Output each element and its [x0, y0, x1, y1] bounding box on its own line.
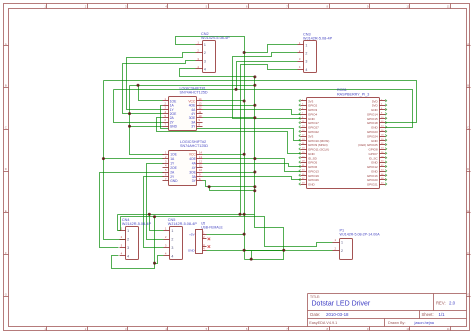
- svg-text:1: 1: [204, 43, 206, 47]
- title block: [308, 293, 467, 295]
- svg-text:10: 10: [406, 327, 410, 331]
- svg-text:3: 3: [305, 60, 307, 64]
- wire U1 4OE to GND trunk: [203, 105, 255, 107]
- wire U2 VCC to trunk: [203, 154, 245, 156]
- svg-text:Drawn By:: Drawn By:: [388, 321, 406, 325]
- svg-text:2: 2: [341, 249, 343, 253]
- svg-text:E: E: [5, 209, 7, 213]
- svg-text:2: 2: [127, 238, 129, 242]
- svg-text:11: 11: [447, 327, 450, 331]
- svg-text:D: D: [5, 167, 7, 171]
- svg-text:GND: GND: [308, 183, 316, 187]
- wire U2 4A to RPI GPIO6: [203, 164, 301, 167]
- svg-text:D: D: [467, 167, 469, 171]
- svg-text:Dotstar LED Driver: Dotstar LED Driver: [312, 301, 371, 308]
- wire U2 1Y to CN5.2: [147, 164, 164, 240]
- wire bus1 branch to U2 1A: [104, 158, 164, 160]
- svg-text:3OE: 3OE: [189, 170, 196, 174]
- wire CN5.4 branch: [155, 256, 164, 264]
- wire loop to CN4.4: [112, 217, 155, 269]
- connector RCB1 RASPBERRY_PI_3 header: [299, 88, 387, 188]
- wire CN3.1 to VCC trunk: [245, 45, 298, 53]
- wire jog link: [251, 251, 253, 260]
- wire VCC trunk to P1.2: [245, 250, 333, 252]
- wire U1 3OE to GND trunk: [203, 117, 255, 119]
- wire USB +5V to VCC trunk: [207, 234, 245, 236]
- svg-text:G: G: [467, 293, 469, 297]
- svg-text:WJ142R-5.08-4P: WJ142R-5.08-4P: [122, 222, 152, 226]
- wire to U1 GND: [130, 126, 163, 128]
- svg-text:WJ142R-5.08-4P: WJ142R-5.08-4P: [168, 222, 198, 226]
- svg-text:SN74AHCT125D: SN74AHCT125D: [180, 91, 208, 95]
- svg-text:A: A: [5, 42, 7, 46]
- svg-text:E: E: [467, 209, 469, 213]
- wire GND trunk bottom loop: [245, 77, 284, 260]
- wire U2 2Y to CN5.3: [144, 177, 164, 248]
- svg-text:1: 1: [341, 241, 343, 245]
- connector U5 USB-FEMALE: [188, 222, 224, 254]
- svg-text:EasyEDA V4.9.1: EasyEDA V4.9.1: [309, 321, 337, 325]
- svg-text:F: F: [5, 251, 7, 255]
- svg-text:C: C: [5, 125, 7, 129]
- connector CN5 WJ142R-5.08-4P: [164, 218, 198, 260]
- svg-text:3: 3: [204, 59, 206, 63]
- wire U2 3A to RPI GPIO26: [203, 177, 301, 180]
- wire U2 3Y to GND trunk: [203, 181, 255, 187]
- wire U2 2A to CN4.3: [100, 173, 164, 248]
- svg-text:SN74AHCT125D: SN74AHCT125D: [180, 144, 208, 148]
- wire bus2 to RPI GND: [114, 90, 413, 128]
- svg-text:TITLE:: TITLE:: [310, 295, 320, 299]
- svg-text:USB-FEMALE: USB-FEMALE: [201, 226, 223, 230]
- connector P1 WJ142R-5.08-2P-14.00A: [333, 228, 381, 259]
- wire CN2.2 to U1 1Y: [127, 53, 196, 110]
- wire to U1 1OE: [139, 86, 163, 101]
- op-amp buffer U1 SN74AHCT125D LOGICSHIFT#1: [163, 87, 208, 131]
- connector CN2 WJ142V-5.08-4P: [196, 32, 231, 72]
- wire bottom bus y217 to P1.1: [121, 217, 333, 247]
- op-amp buffer U2 SN74AHCT125D LOGICSHIFT#2: [163, 140, 209, 185]
- wire CN2.4 to GND trunk: [180, 69, 255, 77]
- wire bus1 to RPI GPIO18: [104, 81, 417, 123]
- svg-text:RASPBERRY_PI_3: RASPBERRY_PI_3: [337, 92, 369, 96]
- svg-text:GND: GND: [170, 179, 178, 183]
- svg-text:WJ142V-5.08-4P: WJ142V-5.08-4P: [201, 36, 230, 40]
- svg-text:Sheet:: Sheet:: [422, 312, 434, 317]
- svg-text:4: 4: [305, 68, 307, 72]
- wire bus1 left descent to CN4.2: [104, 81, 126, 240]
- svg-text:4: 4: [171, 254, 173, 258]
- wire U1 2A to RPI GND13: [157, 118, 301, 154]
- wire branch to GND trunk: [210, 187, 255, 191]
- svg-text:B: B: [5, 84, 7, 88]
- svg-text:2: 2: [171, 238, 173, 242]
- junction dots: [243, 51, 246, 54]
- connector CN3 WJ142R-5.08-4P: [298, 33, 333, 73]
- svg-text:2: 2: [305, 52, 307, 56]
- svg-text:WJ142R-5.08-4P: WJ142R-5.08-4P: [303, 37, 333, 41]
- svg-text:1: 1: [127, 229, 129, 233]
- svg-text:4: 4: [204, 68, 206, 72]
- wire CN3.2 to RPI GND: [233, 53, 301, 119]
- svg-text:10: 10: [406, 4, 410, 8]
- wire CN2.1 to VCC trunk: [176, 37, 245, 260]
- svg-text:1OE: 1OE: [170, 153, 177, 157]
- svg-text:jason.hejna: jason.hejna: [414, 321, 435, 325]
- svg-text:2: 2: [204, 51, 206, 55]
- svg-text:REV:: REV:: [436, 300, 446, 305]
- svg-text:1/1: 1/1: [439, 312, 446, 317]
- svg-text:2OE: 2OE: [170, 166, 177, 170]
- wire GND down to U2 1OE: [130, 86, 164, 155]
- wire CN3.3 to bus2: [237, 62, 298, 90]
- wire U1 4A to RPI GPIO4: [203, 110, 301, 115]
- svg-text:C: C: [467, 125, 469, 129]
- wire U1 VCC to trunk: [203, 100, 245, 102]
- svg-text:4OE: 4OE: [189, 157, 196, 161]
- svg-text:+5V: +5V: [189, 232, 194, 236]
- svg-text:G: G: [5, 293, 7, 297]
- svg-text:F: F: [467, 251, 469, 255]
- wire drop to CN4.1: [118, 215, 120, 231]
- svg-text:GPIO21: GPIO21: [367, 183, 378, 187]
- wire U1 1A to RPI GPIO10: [161, 106, 301, 141]
- svg-text:1: 1: [305, 44, 307, 48]
- svg-text:WJ142R-5.08-2P-14.00A: WJ142R-5.08-2P-14.00A: [340, 232, 381, 236]
- svg-text:GND: GND: [170, 125, 178, 129]
- svg-text:VCC: VCC: [189, 153, 197, 157]
- wire drop to CN5.1: [150, 215, 164, 231]
- svg-text:B: B: [467, 84, 469, 88]
- wire U2 3OE to GND trunk: [203, 172, 255, 174]
- svg-text:Date:: Date:: [310, 312, 320, 317]
- wire bus2 left descent to U1 2Y: [114, 90, 163, 123]
- wire CN2.3 to U1 2OE: [123, 61, 196, 114]
- svg-text:11: 11: [447, 4, 450, 8]
- wire bottom bus y214: [118, 214, 255, 216]
- svg-text:1: 1: [171, 229, 173, 233]
- wire drop to CN4.1b: [119, 217, 121, 231]
- svg-text:2010-03-18: 2010-03-18: [326, 312, 349, 317]
- connector CN4 WJ142R-5.08-4P: [120, 218, 152, 260]
- wire CN3.4 down: [241, 65, 298, 215]
- wire U2 4OE to RPI GPIO13: [203, 159, 301, 172]
- svg-text:2.0: 2.0: [449, 301, 456, 306]
- wire GND branch y85: [130, 85, 255, 87]
- wire USB GND to GND trunk: [207, 250, 284, 252]
- svg-text:3: 3: [171, 246, 173, 250]
- svg-text:3: 3: [127, 246, 129, 250]
- svg-text:GND: GND: [188, 248, 196, 252]
- svg-text:4: 4: [127, 254, 129, 258]
- svg-text:A: A: [467, 42, 469, 46]
